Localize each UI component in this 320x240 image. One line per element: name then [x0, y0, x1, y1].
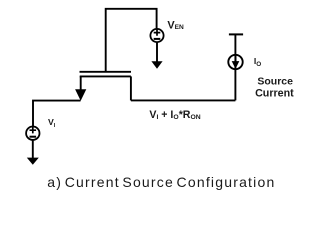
wire IO branch vertical — [234, 34, 236, 100]
wire drain rail — [131, 99, 236, 101]
svg-text:Source: Source — [257, 76, 293, 88]
voltage source VEN — [150, 29, 163, 42]
wire VEN bottom lead — [156, 42, 158, 62]
ground arrow (VI) — [27, 158, 39, 165]
svg-text:Current: Current — [255, 87, 294, 99]
supply bar terminal — [229, 33, 243, 35]
current source IO — [228, 54, 242, 69]
svg-text:a) Current Source Configuratio: a) Current Source Configuration — [47, 174, 275, 190]
wire gate-to-VEN top run — [106, 9, 157, 72]
wire VI bottom lead — [32, 140, 34, 158]
transistor (MOSFET) — [75, 72, 131, 101]
voltage source VI — [26, 127, 39, 140]
ground arrow (VEN) — [151, 61, 162, 68]
wire source rail to VI branch — [33, 101, 81, 126]
